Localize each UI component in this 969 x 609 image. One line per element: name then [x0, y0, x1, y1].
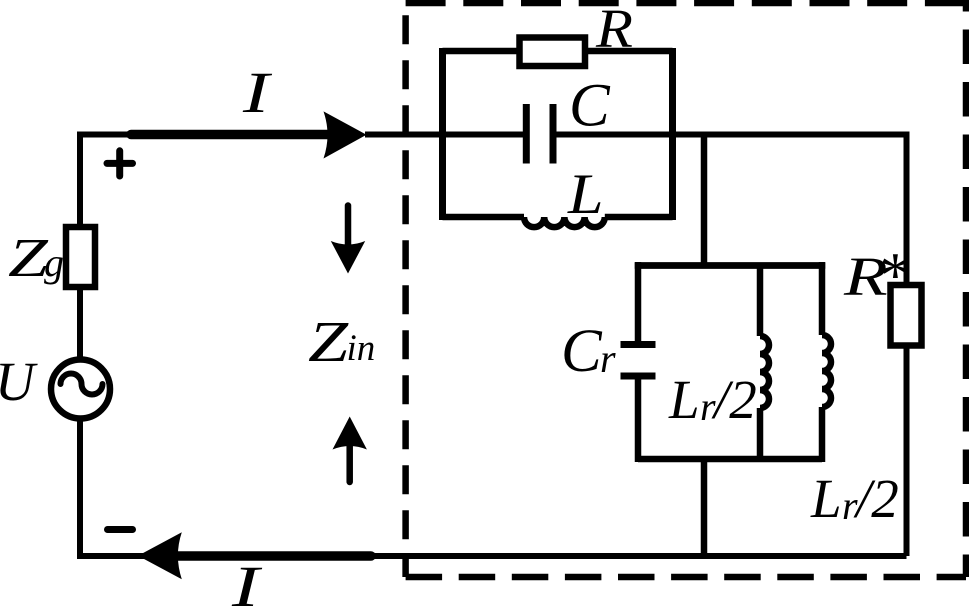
wire: Cr to sub-block bottom rail [635, 379, 642, 462]
wire: thick current line (bottom, I) [174, 551, 371, 561]
dashed box: top edge [406, 0, 969, 6]
svg-text:*: * [876, 240, 909, 312]
svg-text:in: in [347, 328, 376, 369]
svg-text:/2: /2 [853, 468, 899, 529]
svg-text:U: U [0, 351, 38, 412]
svg-text:C: C [569, 73, 611, 140]
svg-text:L: L [810, 468, 842, 529]
plus terminal [107, 151, 133, 176]
dashed box: right edge [963, 0, 969, 577]
wire: inductor L to right bar [605, 214, 673, 221]
wire: thick current line (top, I) [131, 130, 338, 140]
current arrowhead I (bottom, pointing left) [138, 532, 182, 579]
RLC block: right bar [669, 48, 676, 220]
wire: top node to RLC block [365, 132, 523, 138]
wire: Zg to source U [77, 287, 83, 362]
inductor Lr/2 (first, vertical) [760, 263, 769, 463]
inductor Lr/2 (second, vertical, right edge of sub-block) [822, 263, 831, 463]
wire: R* to bottom return [904, 346, 910, 557]
svg-text:C: C [561, 318, 603, 385]
arrow up (Zin, lower) [333, 417, 367, 483]
svg-text:R: R [595, 0, 633, 59]
source U (AC source circle) [51, 360, 110, 419]
wire: top branch to resistor R [443, 48, 522, 55]
wire: sub-block left leg to Cr [635, 263, 642, 342]
wire: top-left corner from source branch to node [80, 135, 134, 231]
current arrowhead I (top, pointing right) [324, 111, 367, 158]
wire: resistor R to right bar [583, 48, 673, 55]
svg-text:L: L [567, 163, 604, 226]
svg-text:I: I [231, 555, 263, 609]
inductor L (4 arcs) [524, 217, 605, 227]
svg-text:L: L [668, 369, 700, 430]
svg-text:I: I [242, 61, 273, 125]
capacitor Cr plates [621, 341, 656, 348]
wire: bottom return line [371, 553, 907, 559]
RLC block: left bar [439, 48, 446, 220]
svg-text:r: r [600, 336, 616, 381]
svg-text:Z: Z [8, 227, 48, 288]
wire: sub-block feed down to bottom return [701, 459, 708, 556]
wire: top node from C to R* branch [556, 132, 907, 138]
svg-text:Z: Z [308, 310, 349, 374]
capacitor C plates [523, 104, 530, 164]
resistor R (rectangle) [520, 38, 586, 67]
minus terminal [108, 526, 133, 533]
wire: sub-block top rail [638, 262, 822, 266]
wire: bottom branch to inductor L [443, 214, 525, 221]
resistor R* (rectangle) [891, 285, 922, 346]
dashed network boundary box [406, 0, 969, 577]
wire: sub-block bottom rail [638, 456, 822, 463]
wire: top node to R* branch (right corner) [905, 135, 907, 288]
sine wave inside source [61, 374, 103, 395]
arrow down (Zin, upper) [331, 206, 365, 274]
wire: node to resonant sub-block [701, 135, 708, 266]
svg-text:/2: /2 [711, 369, 757, 430]
dashed box: left edge [402, 15, 409, 577]
wire: source U to bottom-left corner [80, 418, 144, 556]
dashed box: bottom edge [406, 574, 966, 581]
svg-text:g: g [44, 240, 64, 285]
resistor Zg (rectangle) [66, 227, 95, 287]
